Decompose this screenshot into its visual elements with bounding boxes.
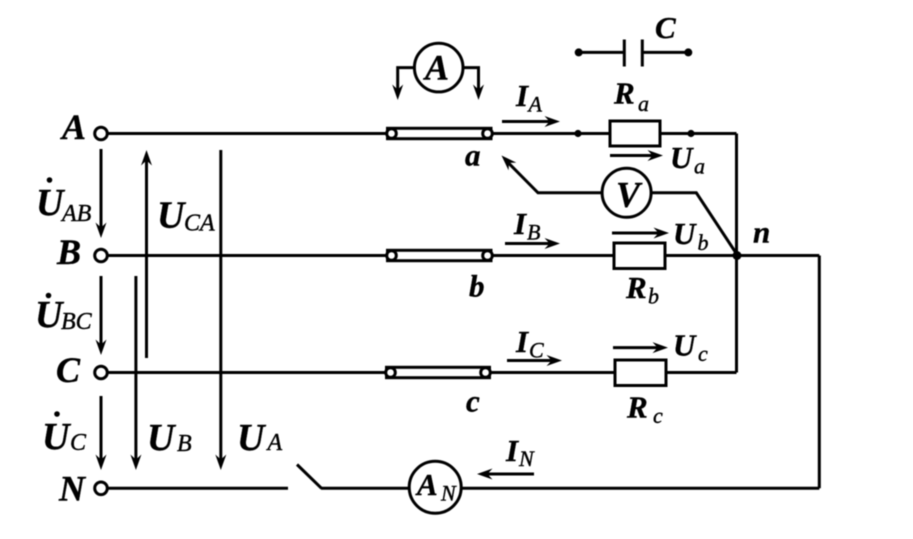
voltmeter lead to node n: [651, 193, 737, 255]
svg-text:U: U: [237, 417, 267, 459]
arrow U_AB (A to B): [96, 149, 107, 238]
arrow I_A: [502, 116, 560, 127]
current coil (shunt) on phase B: [387, 250, 493, 260]
svg-text:C: C: [529, 338, 544, 363]
resistor Rb: [614, 243, 665, 269]
wire: vertical right return to neutral: [818, 256, 821, 489]
svg-text:N: N: [58, 469, 87, 509]
svg-text:B: B: [56, 232, 81, 272]
label I_N: [505, 433, 535, 471]
wire: neutral line left segment: [107, 487, 288, 490]
svg-text:a: a: [638, 91, 649, 116]
label I_A: [515, 78, 543, 117]
label U_AB with dot: [36, 177, 92, 227]
wire: phase C line middle segment: [486, 371, 615, 374]
wire: phase A line left segment: [108, 132, 391, 135]
wire: neutral line right segment: [462, 487, 820, 490]
arrow U_BC (B to C): [96, 276, 107, 355]
capacitor C left dot: [575, 48, 583, 56]
label U_B: [147, 417, 192, 459]
svg-text:N: N: [440, 481, 457, 506]
label Rb: [625, 270, 659, 309]
svg-text:U: U: [673, 216, 697, 251]
svg-text:A: A: [60, 107, 86, 147]
wire: phase B line right segment: [665, 254, 819, 257]
label A (phase): [60, 107, 86, 147]
svg-text:U: U: [42, 416, 72, 458]
label U_BC with dot: [35, 293, 93, 336]
svg-text:U: U: [670, 140, 694, 175]
current coil (shunt) on phase C: [386, 367, 491, 377]
ammeter A right lead arrow: [463, 68, 484, 100]
arrow U_b: [612, 228, 669, 239]
svg-text:b: b: [469, 269, 485, 304]
wire: vertical from phase A through node n to phase C: [735, 134, 738, 373]
label I_C: [515, 324, 544, 363]
voltmeter V: [602, 168, 651, 217]
wire: phase B line middle segment: [488, 254, 614, 257]
ammeter A (phase A): [414, 43, 463, 92]
arrow U_A (A down to N): [215, 150, 226, 470]
terminal A: [95, 127, 108, 140]
label Ra: [613, 76, 649, 117]
label I_B: [513, 206, 540, 245]
arrow U_B (B down to N): [130, 276, 141, 470]
arrow U_c: [613, 342, 668, 353]
label B (phase): [56, 232, 81, 272]
svg-text:R: R: [626, 390, 648, 425]
arrow I_C: [507, 355, 562, 366]
svg-text:c: c: [466, 384, 480, 419]
wire: phase C line left segment: [107, 371, 390, 374]
svg-text:U: U: [157, 195, 187, 237]
svg-text:n: n: [753, 215, 770, 250]
svg-text:I: I: [505, 433, 519, 468]
label U_C with dot: [42, 411, 87, 458]
voltmeter lead to a with arrow: [498, 152, 602, 193]
label U_c: [673, 328, 708, 367]
label U_A: [237, 417, 283, 459]
arrow U_CA (C up to A): [141, 150, 152, 358]
label U_a: [670, 140, 705, 179]
svg-text:N: N: [518, 446, 535, 471]
svg-text:B: B: [527, 220, 540, 245]
junction dot left of Ra: [574, 130, 581, 137]
svg-text:a: a: [465, 138, 481, 173]
arrow I_N (pointing left): [477, 469, 534, 480]
svg-text:R: R: [613, 76, 635, 111]
label Rc: [626, 390, 663, 429]
svg-text:A: A: [266, 430, 283, 456]
svg-text:I: I: [515, 324, 529, 359]
arrow U_C (C to N): [96, 396, 107, 470]
label U_b: [673, 216, 709, 255]
svg-text:BC: BC: [61, 309, 93, 335]
node n junction dot: [733, 251, 742, 260]
svg-text:I: I: [515, 78, 529, 113]
svg-text:c: c: [698, 341, 708, 366]
wire: phase A line middle segment: [488, 132, 610, 135]
svg-text:U: U: [147, 417, 177, 459]
svg-text:U: U: [673, 328, 697, 363]
label U_CA: [157, 195, 215, 237]
wire: phase B line left segment: [107, 254, 391, 257]
ammeter A left lead arrow: [392, 68, 414, 100]
terminal N: [95, 482, 108, 495]
wire: phase A line right segment: [660, 132, 737, 135]
terminal B: [95, 249, 108, 262]
capacitor C right dot: [684, 48, 692, 56]
svg-text:A: A: [423, 48, 449, 88]
arrow I_B: [505, 238, 560, 249]
label C (capacitor): [655, 10, 676, 45]
label b: [469, 269, 485, 304]
svg-text:c: c: [653, 403, 663, 428]
svg-text:C: C: [655, 10, 676, 45]
current coil (shunt) on phase A: [387, 128, 493, 138]
label a: [465, 138, 481, 173]
svg-text:V: V: [616, 175, 643, 215]
wire: neutral line middle segment: [321, 487, 409, 490]
svg-text:B: B: [177, 431, 192, 457]
svg-text:b: b: [698, 230, 709, 255]
svg-text:R: R: [625, 270, 647, 305]
svg-text:AB: AB: [60, 201, 92, 227]
svg-text:I: I: [513, 206, 527, 241]
resistor Ra: [610, 121, 660, 146]
wire: phase C line right segment: [666, 371, 737, 374]
label n: [753, 215, 770, 250]
ammeter A_N on neutral: [409, 461, 461, 513]
svg-text:A: A: [415, 467, 438, 502]
label C (phase): [56, 350, 81, 390]
svg-text:b: b: [648, 284, 659, 309]
svg-text:CA: CA: [184, 211, 215, 237]
label N (neutral): [58, 469, 87, 509]
svg-text:A: A: [527, 92, 543, 117]
label c: [466, 384, 480, 419]
switch S on neutral: [297, 465, 322, 489]
terminal C: [95, 366, 108, 379]
svg-text:a: a: [694, 154, 705, 179]
capacitor C: [579, 40, 689, 67]
arrow U_a: [610, 150, 663, 161]
svg-text:C: C: [56, 350, 81, 390]
resistor Rc: [615, 360, 666, 386]
junction dot right of Ra: [687, 130, 694, 137]
svg-text:C: C: [70, 430, 87, 456]
